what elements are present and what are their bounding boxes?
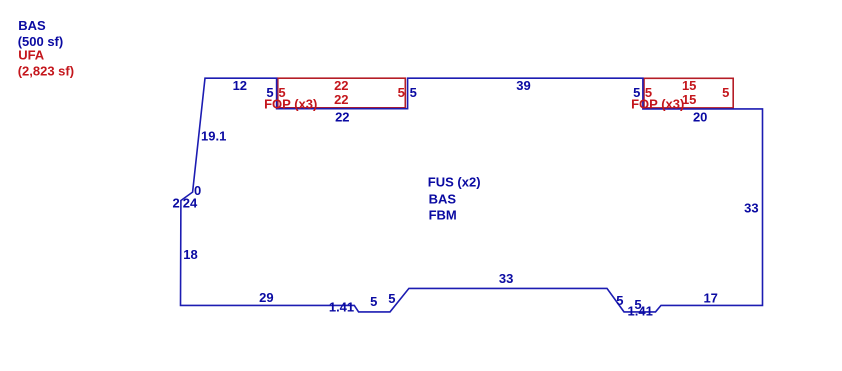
svg-text:5: 5 — [410, 85, 417, 100]
svg-text:19.1: 19.1 — [201, 129, 226, 144]
svg-text:FBM: FBM — [429, 208, 457, 223]
porch FOP rectangle 1 (red) — [278, 78, 406, 108]
svg-text:22: 22 — [335, 109, 349, 124]
svg-text:22: 22 — [334, 92, 348, 107]
svg-text:(2,823 sf): (2,823 sf) — [18, 63, 74, 78]
svg-text:FOP (x3): FOP (x3) — [264, 97, 317, 112]
svg-text:20: 20 — [693, 109, 707, 124]
svg-text:2: 2 — [172, 196, 179, 211]
building outline polygon (blue) — [181, 78, 763, 312]
porch FOP rectangle 2 (red) — [644, 78, 733, 108]
svg-text:5: 5 — [722, 85, 729, 100]
svg-text:UFA: UFA — [18, 47, 45, 62]
svg-text:5: 5 — [370, 294, 377, 309]
svg-text:1.41: 1.41 — [329, 300, 354, 315]
svg-text:5: 5 — [398, 85, 405, 100]
svg-text:39: 39 — [516, 78, 530, 93]
svg-text:FUS (x2): FUS (x2) — [428, 174, 481, 189]
svg-text:18: 18 — [183, 247, 197, 262]
svg-text:33: 33 — [744, 201, 758, 216]
svg-text:24: 24 — [183, 196, 198, 211]
svg-text:17: 17 — [703, 291, 717, 306]
svg-text:BAS: BAS — [429, 192, 457, 207]
svg-text:22: 22 — [334, 78, 348, 93]
svg-text:29: 29 — [259, 290, 273, 305]
svg-text:33: 33 — [499, 271, 513, 286]
svg-text:FOP (x3): FOP (x3) — [631, 97, 684, 112]
svg-text:BAS: BAS — [18, 18, 46, 33]
svg-text:15: 15 — [682, 78, 696, 93]
svg-text:1.41: 1.41 — [628, 304, 653, 319]
svg-text:5: 5 — [388, 291, 395, 306]
svg-text:5: 5 — [616, 293, 623, 308]
svg-text:12: 12 — [233, 78, 247, 93]
